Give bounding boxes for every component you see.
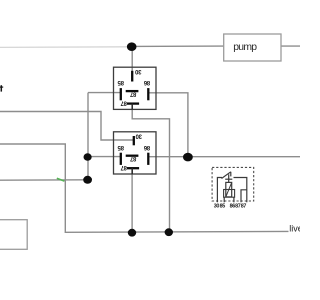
K1 armature link bbox=[228, 174, 230, 182]
wire left bus vertical bbox=[87, 93, 89, 180]
wire faint feed top-left bbox=[0, 46, 128, 49]
wire U2 pin 86 output right bbox=[148, 156, 300, 158]
U2 pin 30 stub bbox=[133, 136, 135, 145]
node A junction dot bbox=[127, 42, 137, 51]
K1 contact lead pin 87 bbox=[234, 178, 247, 203]
wire node C to U2 pin 85 bbox=[88, 156, 121, 158]
U1 pin 85 bar bbox=[120, 88, 122, 100]
U1 pin 30 stub bbox=[131, 71, 133, 82]
K1 switch arm bbox=[222, 172, 231, 179]
svg-text:pump: pump bbox=[233, 42, 257, 53]
U2 pin 87a stub bbox=[131, 168, 133, 174]
K1 coil bbox=[226, 182, 232, 197]
pump box bbox=[224, 34, 281, 61]
svg-text:86: 86 bbox=[143, 79, 150, 85]
svg-text:86: 86 bbox=[143, 144, 150, 150]
K1 switch contact tick bbox=[230, 172, 232, 177]
svg-text:85: 85 bbox=[220, 204, 226, 210]
U1 pin 87a stub bbox=[131, 104, 133, 110]
node C junction dot bbox=[84, 153, 92, 161]
wire U1 pin 85 to left bus bbox=[88, 92, 121, 94]
K1 switch common lead pin 30 bbox=[217, 178, 222, 203]
U1 pin 86 bar bbox=[147, 88, 149, 100]
svg-text:87: 87 bbox=[241, 204, 247, 210]
wire U1 pin 87a to live bus bbox=[132, 104, 169, 232]
svg-text:87: 87 bbox=[129, 90, 136, 96]
svg-text:live: live bbox=[289, 224, 300, 234]
wire supply left loop to live bbox=[0, 144, 289, 232]
label t cut at left edge bbox=[0, 85, 2, 91]
U2 body bbox=[114, 132, 157, 174]
K1 NC lead pin 87a bbox=[241, 190, 247, 203]
U2 pin 86 bar bbox=[147, 153, 149, 165]
relay legend K1 dashed box bbox=[212, 167, 254, 201]
relay U2 bbox=[114, 132, 157, 174]
node F junction dot bbox=[165, 228, 173, 236]
wire earth horizontal bbox=[0, 179, 88, 181]
K1 coil diagonal bbox=[226, 182, 232, 197]
green marker wire bbox=[57, 178, 65, 181]
K1 coil lead pin 86 bbox=[233, 197, 235, 202]
svg-text:87: 87 bbox=[120, 99, 127, 105]
wire node A to relay U1 pin 30 bbox=[131, 47, 133, 73]
wire U1 pin 86 to node B bbox=[148, 93, 188, 157]
U1 pin 87 bar bbox=[126, 90, 139, 92]
U2 pin 87a bar bbox=[127, 167, 139, 169]
svg-text:85: 85 bbox=[117, 144, 124, 150]
connector block bottom-left bbox=[0, 220, 27, 250]
U1 body bbox=[114, 67, 157, 109]
svg-text:30: 30 bbox=[134, 68, 141, 74]
U2 pin 87 bar bbox=[126, 155, 139, 157]
K1 armature crossbar bbox=[225, 178, 232, 180]
node E junction dot bbox=[128, 229, 136, 237]
svg-text:87: 87 bbox=[120, 164, 127, 170]
node B junction dot bbox=[183, 153, 193, 162]
svg-text:85: 85 bbox=[117, 79, 124, 85]
svg-text:30: 30 bbox=[214, 204, 220, 210]
svg-text:30: 30 bbox=[135, 133, 142, 139]
node D junction dot bbox=[83, 176, 92, 184]
wire node A to pump bbox=[132, 45, 224, 47]
wire ignition feed to U2 pin 30 bbox=[0, 112, 134, 141]
K1 coil pin block bbox=[224, 190, 235, 198]
K1 coil lead pin 85 bbox=[223, 197, 225, 202]
wire pump output right bbox=[281, 45, 300, 47]
U2 pin 85 bar bbox=[120, 153, 122, 165]
U1 pin 87a bar bbox=[127, 102, 139, 104]
relay U1 bbox=[114, 67, 157, 109]
svg-text:87: 87 bbox=[129, 155, 136, 161]
wire U2 pin 87a down to live bus bbox=[131, 168, 133, 232]
